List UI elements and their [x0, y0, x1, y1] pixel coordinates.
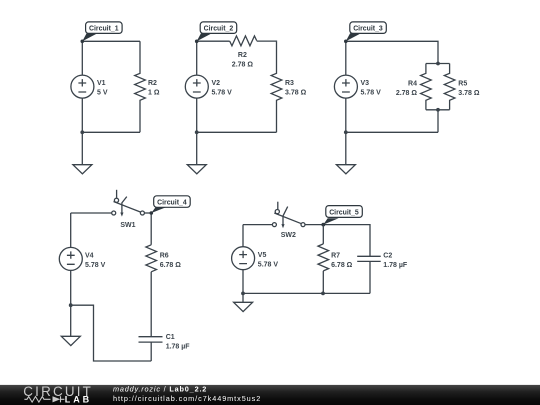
svg-text:http://circuitlab.com/c7k449mt: http://circuitlab.com/c7k449mtx5us2 [113, 394, 261, 403]
svg-text:3.78 Ω: 3.78 Ω [285, 90, 307, 97]
node flag anchor C4 [150, 211, 154, 215]
svg-text:R7: R7 [331, 253, 340, 260]
svg-text:5.78 V: 5.78 V [212, 90, 233, 97]
node junction C5 bottom middle [321, 292, 325, 296]
wire parallel top bar C3 [426, 63, 450, 65]
wire switch to corner C4 [144, 212, 151, 214]
wire left upper C1 [81, 41, 83, 75]
ground C1 [73, 132, 92, 174]
wire left lower C4 [70, 270, 72, 305]
label Circuit_2 [197, 22, 237, 41]
label Circuit_1 [82, 22, 122, 41]
svg-text:C1: C1 [166, 334, 175, 341]
voltage source V2 [185, 75, 232, 98]
svg-text:Circuit_3: Circuit_3 [353, 25, 383, 32]
svg-text:Circuit_2: Circuit_2 [204, 25, 234, 32]
ground C4 [61, 305, 80, 345]
svg-text:R2: R2 [148, 80, 157, 87]
svg-text:Circuit_1: Circuit_1 [89, 25, 119, 32]
switch SW2 [272, 202, 305, 240]
svg-text:V5: V5 [258, 252, 267, 259]
node junction C3 bottom of parallel pair [436, 108, 440, 112]
wire parallel bottom bar C3 [426, 109, 450, 111]
ground C5 [234, 293, 253, 311]
voltage source V1 [71, 75, 108, 98]
node junction C1 bottom [80, 130, 84, 134]
voltage source V4 [59, 247, 105, 270]
node flag anchor C1 [81, 40, 85, 44]
wire top-left C2 [197, 40, 230, 42]
node flag anchor C2 [195, 40, 199, 44]
wire left lower C5 [242, 270, 244, 294]
svg-text:5.78 V: 5.78 V [361, 90, 382, 97]
resistor R7 (6.78 ohm) [318, 244, 353, 271]
svg-text:1 Ω: 1 Ω [148, 90, 160, 97]
wire bottom C2 [197, 131, 277, 133]
wire left upper C3 [345, 41, 347, 75]
resistor R3 (3.78 ohm) [271, 41, 306, 132]
wire R6 to C1cap C4 [150, 272, 152, 337]
svg-text:R6: R6 [160, 253, 169, 260]
wire junction to bottom C4 [71, 305, 152, 361]
svg-text:5.78 V: 5.78 V [85, 262, 106, 269]
wire top-left C4 [71, 212, 112, 214]
ground C2 [187, 132, 206, 174]
wire R7 branch upper C5 [322, 225, 324, 244]
capacitor C2 (1.78 uF) [357, 253, 408, 270]
wire left upper C4 [70, 213, 72, 247]
node junction C4 left [69, 303, 73, 307]
svg-text:5 V: 5 V [97, 90, 108, 97]
label Circuit_4 [151, 196, 190, 213]
svg-text:V4: V4 [85, 253, 94, 260]
wire bottom C3 [346, 131, 438, 133]
resistor R5 (3.78 ohm) [444, 64, 480, 110]
node junction C3 top of parallel pair [436, 62, 440, 66]
resistor R4 (2.78 ohm) [396, 64, 431, 110]
svg-text:R3: R3 [285, 80, 294, 87]
wire left upper C5 [242, 225, 244, 247]
svg-text:5.78 V: 5.78 V [258, 262, 279, 269]
voltage source V3 [334, 75, 381, 98]
svg-text:SW2: SW2 [281, 232, 296, 239]
svg-text:Circuit_5: Circuit_5 [329, 209, 359, 216]
svg-text:R2: R2 [238, 52, 247, 59]
wire bottom C1 [82, 131, 140, 133]
wire top C3 [346, 41, 438, 63]
svg-text:V3: V3 [361, 80, 370, 87]
svg-text:R5: R5 [458, 81, 467, 88]
svg-text:SW1: SW1 [120, 222, 135, 229]
wire left upper C2 [196, 41, 198, 75]
node flag anchor C3 [344, 40, 348, 44]
wire R7 branch lower C5 [322, 271, 324, 294]
svg-text:2.78 Ω: 2.78 Ω [232, 61, 254, 68]
wire top-left C5 [243, 224, 273, 226]
capacitor C1 (1.78 uF) [139, 334, 191, 350]
switch SW1 [112, 190, 145, 229]
svg-text:6.78 Ω: 6.78 Ω [331, 262, 353, 269]
resistor R2 (2.78 ohm) horizontal [230, 36, 257, 69]
wire cap to bottom C5 [369, 261, 371, 293]
node junction C5 left [241, 292, 245, 296]
voltage source V5 [232, 247, 279, 270]
wire top-right C2 [257, 40, 277, 42]
resistor R2 (1 ohm) [135, 41, 160, 132]
wire cap to bottom C4 [150, 342, 152, 361]
svg-text:3.78 Ω: 3.78 Ω [458, 90, 480, 97]
node junction C2 bottom [195, 130, 199, 134]
wire top C1 [82, 40, 140, 42]
svg-text:1.78 µF: 1.78 µF [166, 343, 191, 350]
resistor R6 (6.78 ohm) [146, 245, 181, 272]
label Circuit_5 [323, 206, 362, 225]
svg-text:V2: V2 [212, 80, 221, 87]
svg-text:maddy.rozic / Lab0_2.2: maddy.rozic / Lab0_2.2 [113, 384, 207, 393]
wire bottom C5 [243, 292, 370, 294]
svg-text:V1: V1 [97, 80, 106, 87]
label Circuit_3 [346, 22, 387, 41]
wire left lower C1 [81, 98, 83, 132]
ground C3 [336, 132, 355, 174]
svg-text:2.78 Ω: 2.78 Ω [396, 90, 418, 97]
svg-text:Circuit_4: Circuit_4 [157, 199, 187, 206]
svg-text:1.78 µF: 1.78 µF [383, 262, 408, 269]
wire right upper C4 [150, 213, 152, 245]
node junction C3 bottom-left [344, 130, 348, 134]
wire right lower C3 [437, 110, 439, 133]
wire left lower C2 [196, 98, 198, 132]
svg-text:R4: R4 [408, 81, 417, 88]
wire switch to junction C5 [305, 225, 370, 257]
svg-text:C2: C2 [383, 253, 392, 260]
node flag anchor C5 [321, 223, 325, 227]
svg-text:LAB: LAB [65, 394, 92, 404]
svg-text:6.78 Ω: 6.78 Ω [160, 262, 182, 269]
wire left lower C3 [345, 98, 347, 132]
